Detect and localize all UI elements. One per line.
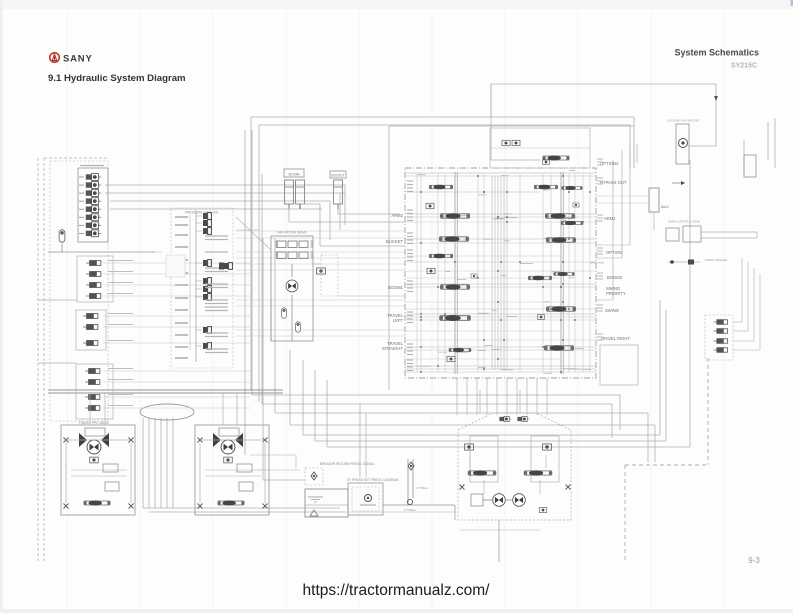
svg-text:ARM1: ARM1 [604, 216, 616, 221]
svg-text:https://tractormanualz.com/: https://tractormanualz.com/ [303, 582, 491, 599]
svg-text:SANY: SANY [63, 54, 93, 65]
svg-text:AUX: AUX [661, 205, 669, 209]
svg-text:BREAKER RETURN PRESS. SIGNAL: BREAKER RETURN PRESS. SIGNAL [320, 462, 375, 466]
svg-text:9.1 Hydraulic System Diagram: 9.1 Hydraulic System Diagram [48, 73, 186, 84]
svg-text:SWING MOTOR & GEAR: SWING MOTOR & GEAR [668, 220, 700, 224]
svg-text:PRESSURE SW & SOL: PRESSURE SW & SOL [185, 211, 219, 215]
svg-text:SWING GREASE: SWING GREASE [705, 258, 727, 262]
svg-text:System Schematics: System Schematics [674, 48, 759, 58]
svg-text:STRAIGHT: STRAIGHT [382, 346, 404, 351]
svg-text:SY PRESS SET PRESS. DIAGRAM: SY PRESS SET PRESS. DIAGRAM [347, 478, 399, 482]
svg-text:COOLING FAN MOTOR: COOLING FAN MOTOR [667, 119, 700, 123]
svg-text:BYPASS OUT: BYPASS OUT [600, 180, 627, 185]
svg-text:BOOM2: BOOM2 [607, 275, 623, 280]
svg-text:PRIORITY: PRIORITY [606, 291, 626, 296]
svg-text:SWING: SWING [605, 308, 619, 313]
svg-text:BUCKET: BUCKET [386, 239, 403, 244]
svg-text:TRAVEL PPC VALVE: TRAVEL PPC VALVE [79, 421, 109, 425]
svg-text:SY215C: SY215C [731, 63, 757, 70]
svg-text:FAN MOTOR DRIVE: FAN MOTOR DRIVE [277, 231, 307, 235]
svg-text:TRAVEL RIGHT: TRAVEL RIGHT [600, 336, 630, 341]
svg-text:ARM2: ARM2 [391, 213, 403, 218]
svg-text:BOOM1: BOOM1 [388, 285, 404, 290]
svg-text:LEFT: LEFT [393, 318, 404, 323]
svg-text:OPTION: OPTION [606, 250, 622, 255]
svg-text:9-3: 9-3 [748, 556, 760, 565]
svg-text:BUCKET: BUCKET [332, 174, 345, 178]
svg-text:2.75Mpa: 2.75Mpa [416, 486, 428, 490]
svg-text:0.75Mpa: 0.75Mpa [404, 508, 416, 512]
svg-text:BOOM: BOOM [289, 172, 300, 176]
